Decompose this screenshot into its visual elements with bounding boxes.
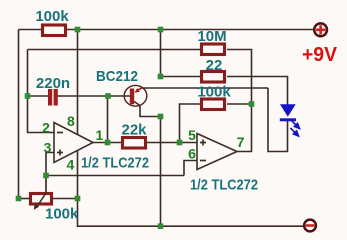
junction J6 [158, 114, 164, 120]
svg-text:100k: 100k [35, 8, 69, 25]
capacitor C1 220n [48, 89, 52, 106]
svg-text:7: 7 [237, 134, 245, 150]
transistor Q1 BC212 [124, 85, 147, 106]
junction J13 [158, 223, 164, 229]
svg-text:2: 2 [42, 120, 50, 136]
svg-text:10M: 10M [197, 28, 226, 45]
wire y49 row [28, 49, 201, 51]
svg-text:4: 4 [67, 157, 75, 173]
junction J8 [177, 140, 183, 146]
wire x161 lower vertical [160, 117, 162, 227]
junction J10 [43, 173, 49, 179]
svg-text:100k: 100k [197, 84, 231, 101]
svg-text:22: 22 [206, 57, 223, 74]
resistor 100k row3 [202, 99, 225, 110]
op-amp U1B triangle [197, 134, 237, 170]
wire 22 row left [161, 76, 201, 78]
svg-text:100k: 100k [45, 206, 79, 223]
svg-text:BC212: BC212 [96, 68, 138, 85]
junction J4 [25, 93, 31, 99]
wire pin8 riser [77, 30, 79, 135]
wire output opamp1 left [93, 142, 121, 144]
wire left vertical [18, 30, 20, 199]
wire collector L [140, 106, 161, 117]
resistor 22 [202, 72, 225, 83]
wire pin6 bend [184, 161, 197, 176]
junction J2 [158, 27, 164, 33]
resistor 22k [123, 138, 146, 149]
op-amp U1B minus [200, 160, 206, 162]
junction J5 [105, 93, 111, 99]
wire x27 vertical to pin2 [28, 50, 55, 133]
junction J3 [158, 74, 164, 80]
resistor R1 100k top-left [43, 25, 66, 36]
wire pin4 riser and bottom bus [78, 151, 304, 227]
op-amp U1A minus [57, 132, 63, 134]
minus terminal [304, 220, 316, 232]
wire 10M right [227, 50, 252, 105]
svg-text:220n: 220n [36, 75, 70, 92]
junction J7 [105, 140, 111, 146]
wire base node down to output [107, 96, 109, 143]
wire emitter rail [141, 87, 268, 89]
potentiometer 100k [31, 194, 52, 205]
wire top rail [19, 29, 314, 31]
junction J1 [75, 27, 81, 33]
wire output to pin5 [146, 142, 197, 144]
svg-text:22k: 22k [121, 122, 147, 139]
wire x161 upper vertical [160, 30, 162, 77]
wire pot right [53, 198, 78, 200]
svg-text:8: 8 [67, 113, 75, 129]
wire emitter down to led link [268, 88, 288, 152]
wire cap net left [28, 95, 49, 97]
svg-text:1/2 TLC272: 1/2 TLC272 [190, 177, 258, 194]
op-amp U1A plus [57, 150, 63, 156]
LED D1 [280, 104, 296, 117]
svg-text:+9V: +9V [302, 44, 338, 66]
junction J11 [16, 196, 22, 202]
wire pin7 out [237, 104, 252, 152]
svg-text:5: 5 [188, 127, 196, 143]
svg-text:1/2 TLC272: 1/2 TLC272 [81, 155, 149, 172]
wire cap to base [58, 95, 131, 97]
resistor 10M [202, 44, 225, 55]
wire y175 row [46, 175, 184, 177]
junction J12 [75, 196, 81, 202]
svg-text:3: 3 [44, 140, 52, 156]
svg-text:1: 1 [96, 127, 104, 143]
wire 100k row3 right [227, 103, 252, 105]
svg-text:6: 6 [188, 146, 196, 162]
junction J9 [249, 101, 255, 107]
op-amp U1B plus [200, 140, 206, 146]
wire 100k row3 left riser [180, 104, 201, 143]
wire pin3 bend [46, 153, 54, 176]
op-amp U1A triangle [54, 123, 93, 163]
plus terminal [314, 23, 327, 36]
wire 22 right to LED [227, 77, 288, 106]
wire pot left [19, 198, 30, 200]
